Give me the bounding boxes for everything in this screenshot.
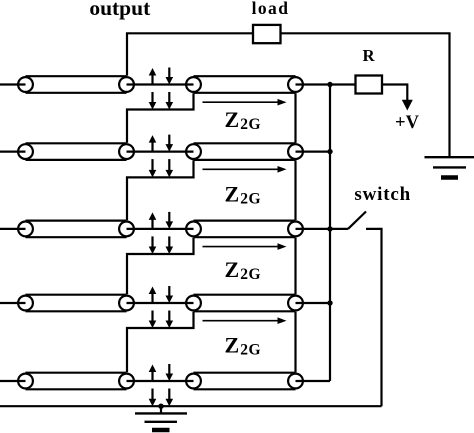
wire bus A segment 4 bbox=[294, 312, 296, 373]
coupling arrows row 4 bbox=[149, 286, 173, 328]
wire row 5 to bus bbox=[296, 380, 331, 382]
resistor R bbox=[356, 76, 383, 94]
wire bottom return bbox=[0, 405, 382, 407]
junction bus B row 4 bbox=[327, 300, 332, 305]
wire row 3 to switch bbox=[296, 228, 349, 230]
wire row 4 to bus bbox=[296, 302, 331, 304]
transmission line TL3B bbox=[186, 221, 303, 238]
coupling arrows row 1 bbox=[149, 68, 173, 110]
wire junction row 4 bbox=[127, 302, 194, 304]
switch S1 blade bbox=[348, 212, 366, 229]
ground right bbox=[425, 157, 474, 177]
wire input row 5 bbox=[0, 380, 26, 382]
wire bus A segment 1 bbox=[294, 93, 296, 143]
wire input row 1 bbox=[0, 83, 26, 85]
transmission line TL4B bbox=[186, 295, 303, 312]
wire row 1 to R bbox=[296, 83, 356, 85]
ground bottom bbox=[135, 406, 187, 430]
transmission line TL5A bbox=[18, 373, 134, 390]
coupling arrows row 5 bbox=[149, 364, 173, 406]
wire step 1 bbox=[127, 93, 194, 143]
wire input row 4 bbox=[0, 302, 26, 304]
wire junction row 3 bbox=[127, 228, 194, 230]
transmission line TL3A bbox=[18, 221, 134, 238]
transmission line TL1B bbox=[186, 76, 303, 93]
junction bus B row 3 bbox=[327, 226, 332, 231]
impedance arrow row 4 bbox=[203, 317, 287, 324]
svg-text:R: R bbox=[362, 46, 375, 65]
wire bus A segment 3 bbox=[294, 238, 296, 295]
wire bus B bbox=[329, 85, 331, 382]
junction bus B row 1 bbox=[327, 82, 332, 87]
junction ground stub bbox=[158, 404, 163, 409]
wire bus A segment 2 bbox=[294, 160, 296, 220]
junction bus B row 2 bbox=[327, 149, 332, 154]
wire R to +V bbox=[382, 85, 407, 101]
wire junction row 5 bbox=[127, 380, 194, 382]
arrow +V supply bbox=[402, 100, 413, 111]
transmission line TL5B bbox=[186, 373, 303, 390]
wire step 4 bbox=[127, 312, 194, 373]
wire junction row 1 bbox=[127, 83, 194, 85]
svg-text:switch: switch bbox=[354, 184, 411, 205]
wire load to right ground bbox=[281, 33, 450, 157]
wire output to top bus bbox=[127, 33, 253, 75]
resistor load bbox=[253, 25, 281, 43]
impedance arrow row 2 bbox=[203, 166, 287, 173]
svg-text:output: output bbox=[89, 0, 151, 20]
wire row 2 to bus bbox=[296, 151, 331, 153]
coupling arrows row 3 bbox=[149, 212, 173, 254]
wire junction row 2 bbox=[127, 151, 194, 153]
transmission line TL4A bbox=[18, 295, 134, 312]
transmission line TL1A bbox=[18, 76, 134, 93]
coupling arrows row 2 bbox=[149, 135, 173, 178]
transmission line TL2B bbox=[186, 143, 303, 160]
wire switch contact bbox=[366, 229, 382, 406]
impedance arrow row 3 bbox=[203, 243, 287, 250]
wire step 2 bbox=[127, 160, 194, 220]
wire input row 2 bbox=[0, 151, 26, 153]
wire step 3 bbox=[127, 238, 194, 295]
wire input row 3 bbox=[0, 228, 26, 230]
transmission line TL2A bbox=[18, 143, 134, 160]
svg-text:+V: +V bbox=[395, 113, 420, 133]
svg-text:load: load bbox=[252, 0, 290, 18]
impedance arrow row 1 bbox=[203, 99, 287, 106]
